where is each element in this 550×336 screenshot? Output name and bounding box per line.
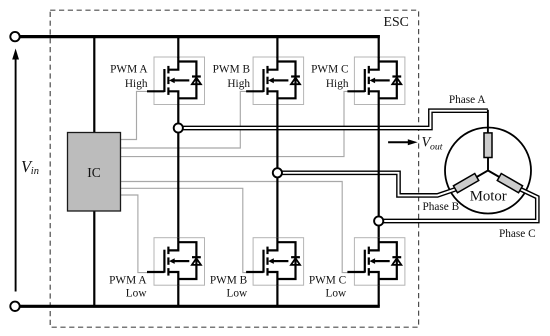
motor winding A — [484, 133, 492, 158]
wire IC supply — [93, 35, 95, 306]
svg-text:out: out — [430, 142, 443, 153]
ESC dashed boundary — [50, 10, 418, 327]
svg-text:Motor: Motor — [470, 188, 507, 204]
svg-text:Phase A: Phase A — [449, 94, 487, 106]
transistor Q1 PWM A High — [147, 57, 205, 106]
transistor Q2 PWM B High — [246, 57, 304, 106]
input terminal top — [10, 32, 19, 41]
bottom return bus — [20, 305, 380, 308]
svg-text:ESC: ESC — [384, 14, 409, 29]
svg-text:Low: Low — [126, 288, 148, 300]
wire column C — [378, 35, 380, 306]
IC U1 — [68, 133, 121, 212]
svg-text:PWM C: PWM C — [309, 274, 346, 286]
svg-text:Low: Low — [325, 288, 347, 300]
motor winding B — [453, 174, 478, 193]
motor star point wires — [477, 158, 500, 178]
transistor Q3 PWM C High — [347, 57, 405, 106]
wire column B — [276, 35, 278, 306]
top supply bus — [20, 35, 380, 38]
svg-text:PWM A: PWM A — [110, 63, 148, 75]
motor winding C — [497, 174, 522, 193]
svg-text:High: High — [125, 78, 148, 90]
gate wire IC to Q3 (C high) — [121, 91, 349, 156]
phase A lead into motor — [487, 110, 489, 134]
gate wire IC to Q5 (B low) — [121, 188, 248, 272]
svg-text:PWM B: PWM B — [213, 63, 250, 75]
wire column A — [177, 35, 179, 306]
svg-text:PWM B: PWM B — [210, 274, 247, 286]
phase B wire (double line) — [277, 173, 455, 196]
transistor Q5 PWM B Low — [246, 237, 304, 286]
svg-text:PWM C: PWM C — [311, 63, 348, 75]
svg-text:Low: Low — [226, 288, 248, 300]
svg-text:in: in — [31, 166, 39, 177]
transistor Q6 PWM C Low — [347, 237, 405, 286]
node A junction — [174, 123, 183, 132]
transistor Q4 PWM A Low — [147, 237, 205, 286]
gate wire IC to Q4 (A low) — [121, 195, 149, 273]
svg-text:PWM A: PWM A — [109, 274, 147, 286]
gate wire IC to Q2 (B high) — [121, 91, 248, 148]
gate wire IC to Q6 (C low) — [121, 182, 349, 273]
Vout arrow — [388, 141, 409, 143]
svg-text:Phase C: Phase C — [499, 228, 536, 240]
motor circle — [445, 128, 531, 214]
svg-text:Phase B: Phase B — [422, 201, 459, 213]
gate wire IC to Q1 (A high) — [121, 91, 149, 139]
node C junction — [374, 216, 383, 225]
svg-text:High: High — [326, 78, 349, 90]
node B junction — [273, 168, 282, 177]
svg-text:IC: IC — [87, 165, 101, 180]
Vin arrow — [15, 58, 17, 292]
svg-text:High: High — [227, 78, 250, 90]
phase A wire (double line) — [178, 111, 488, 128]
input terminal bottom — [10, 302, 19, 311]
phase C wire (double line) — [379, 189, 538, 221]
